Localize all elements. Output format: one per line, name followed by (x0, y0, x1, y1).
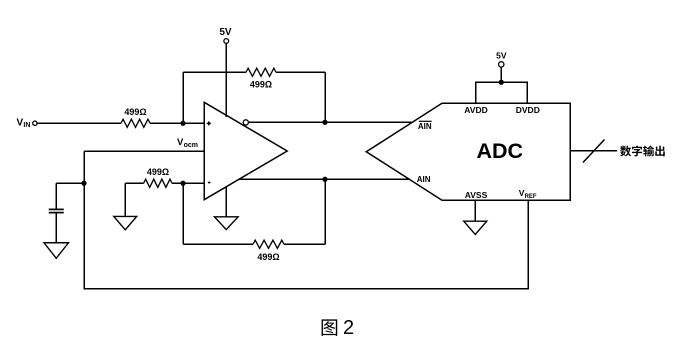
resistor R3 499ohm top feedback (246, 68, 276, 89)
svg-text:ocm: ocm (184, 142, 198, 149)
caption: figure 2 (322, 317, 355, 339)
node: - input / feedback junction (180, 181, 185, 186)
node: supply junction (499, 80, 504, 85)
wire ground to R2 (124, 183, 126, 216)
svg-text:5V: 5V (496, 51, 507, 61)
svg-text:499Ω: 499Ω (124, 107, 146, 117)
node: top feedback junction (322, 120, 327, 125)
ground (AVSS) (464, 221, 487, 234)
wire: inverted output to AIN-bar (248, 121, 411, 123)
node: capacitor tap (81, 181, 86, 186)
pin label VREF (519, 188, 537, 200)
AVSS ground stem (474, 200, 476, 221)
pin label AIN-bar (418, 121, 432, 131)
feedback top: wire up from + node (182, 72, 184, 123)
svg-text:2: 2 (343, 317, 354, 339)
input terminal VIN (17, 118, 38, 129)
digital output wire (570, 150, 617, 152)
wire VIN to R1 (37, 122, 121, 124)
svg-text:499Ω: 499Ω (250, 80, 272, 90)
ground (op-amp) (214, 217, 238, 230)
wire: output to AIN (238, 178, 409, 180)
Vocm label (177, 137, 198, 149)
ground (R2) (114, 216, 137, 229)
svg-text:IN: IN (23, 122, 30, 129)
wire R2 to - input (172, 182, 204, 184)
svg-text:AIN: AIN (418, 122, 432, 131)
5V supply for ADC (496, 51, 507, 83)
feedback bottom: wire down from - node (182, 183, 184, 244)
ground (capacitor) (44, 243, 69, 259)
node: bottom feedback junction (322, 177, 327, 182)
svg-text:AVSS: AVSS (465, 190, 488, 200)
svg-text:REF: REF (525, 194, 537, 200)
wire up to output line (324, 179, 326, 244)
wire R1 to op-amp + input (150, 122, 204, 124)
ADC block (366, 103, 570, 200)
wire: Vocm vertical to bottom rail (83, 151, 85, 289)
wire top feedback resistor to output leg (276, 71, 325, 73)
VREF wire down (527, 200, 529, 289)
op-amp U1 fully differential amplifier (204, 102, 287, 199)
resistor R2 499ohm to ground (144, 167, 172, 187)
Vocm input wire (84, 150, 204, 152)
op-amp ground stem (225, 187, 227, 217)
wire down to inverted output line (324, 72, 326, 122)
wire bottom feedback resistor to output leg (284, 243, 325, 245)
resistor R4 499ohm bottom feedback (253, 240, 284, 262)
svg-text:ADC: ADC (477, 139, 524, 163)
capacitor C1 (49, 209, 64, 212)
wire to capacitor C1 (56, 182, 84, 184)
bus slash (583, 140, 605, 163)
resistor R1 499ohm input (121, 107, 150, 127)
svg-text:DVDD: DVDD (516, 105, 540, 115)
op-amp - input marker (208, 182, 211, 184)
5V supply for op-amp (219, 27, 232, 117)
label: digital output (Chinese) (620, 146, 665, 157)
wire capacitor to ground (55, 213, 57, 243)
AVDD/DVDD supply bracket (476, 82, 528, 103)
op-amp + input marker (207, 121, 211, 125)
svg-text:499Ω: 499Ω (147, 167, 169, 177)
svg-text:AIN: AIN (417, 175, 431, 184)
svg-text:5V: 5V (219, 27, 232, 38)
svg-text:AVDD: AVDD (464, 105, 487, 115)
wire to top feedback resistor (183, 71, 246, 73)
inverting output bubble (243, 120, 248, 125)
node: + input / feedback junction (180, 121, 185, 126)
svg-text:499Ω: 499Ω (257, 252, 279, 262)
bottom rail wire VREF to Vocm (84, 288, 529, 290)
